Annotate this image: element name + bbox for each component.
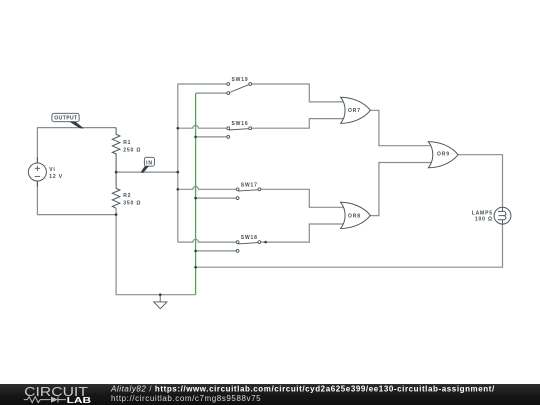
switch SW18 (236, 241, 261, 253)
svg-text:250 Ω: 250 Ω (123, 147, 141, 153)
net flag IN (141, 157, 155, 173)
wire SW19 pole to OR7 input A (252, 84, 347, 102)
resistor R2 (112, 172, 120, 208)
svg-text:IN: IN (146, 160, 153, 166)
label LAMP5 value (472, 210, 493, 222)
svg-text:R2: R2 (123, 193, 131, 199)
lamp LAMP5 (494, 207, 511, 224)
wire bus vertical (177, 84, 179, 242)
wire V1 top to R1 top (37, 128, 116, 164)
wire V1 bottom to R2 bottom node (37, 181, 116, 215)
wire SW16 top throw with hop (178, 125, 227, 128)
switch SW19 (227, 83, 252, 95)
wire SW18 top throw with hop (178, 239, 237, 242)
wire SW16 pole to OR7 input B (252, 119, 347, 129)
svg-text:R1: R1 (123, 140, 131, 146)
svg-text:OR8: OR8 (348, 213, 361, 219)
wire SW18 pole to OR8 input B (261, 224, 346, 242)
resistor R1 (112, 128, 120, 173)
wire R2 bottom to ground rail (116, 208, 196, 294)
junction green at SW18 (194, 250, 197, 253)
wire node IN from divider to bus (116, 171, 178, 173)
junction green at SW16 (194, 136, 197, 139)
svg-text:SW16: SW16 (232, 121, 249, 127)
wire SW19 top throw (178, 83, 227, 85)
wire green highlighted net (195, 93, 197, 295)
CircuitLab logo waveform (24, 397, 66, 403)
svg-text:Vi: Vi (49, 167, 55, 173)
wire SW17 bottom throw from green net (196, 197, 237, 199)
junction V1 minus to R2 (115, 213, 118, 216)
switch SW17 (236, 188, 261, 200)
switch SW16 (227, 127, 252, 139)
or-gate OR9 (428, 142, 458, 168)
svg-text:http://circuitlab.com/c7mg8s95: http://circuitlab.com/c7mg8s9588v75 (111, 394, 261, 403)
junction ground (159, 293, 162, 296)
label R1 value (123, 140, 141, 153)
label Vi value (49, 167, 63, 180)
junction bus at SW16 (177, 127, 180, 130)
wire SW19 bottom throw from green net (196, 92, 227, 94)
junction green at lamp return (194, 266, 197, 269)
junction green at SW17 (194, 197, 197, 200)
svg-text:Alitaly82 / https://www.circui: Alitaly82 / https://www.circuitlab.com/c… (110, 385, 495, 394)
svg-text:OR7: OR7 (348, 108, 361, 114)
svg-text:OR9: OR9 (437, 152, 450, 158)
junction bus at IN wire (177, 171, 180, 174)
wire OR8 output to OR9 input B (370, 163, 432, 216)
wire SW17 top throw with hop (178, 187, 237, 190)
junction SW18 pole (264, 241, 267, 244)
svg-text:LAB: LAB (67, 395, 91, 405)
wire lamp bottom return to green net (196, 224, 503, 267)
net flag OUTPUT (52, 113, 84, 128)
svg-text:SW18: SW18 (241, 235, 258, 241)
wire SW16 bottom throw from green net (196, 136, 227, 138)
wire SW18 bottom throw from green net (196, 250, 237, 252)
or-gate OR8 (341, 202, 371, 228)
wire SW17 pole to OR8 input A (261, 189, 346, 207)
wire OR9 output to lamp (458, 155, 502, 208)
junction node divider IN (115, 171, 118, 174)
ground (154, 295, 167, 309)
voltage source Vi (28, 157, 46, 187)
svg-text:350 Ω: 350 Ω (123, 201, 141, 207)
junction bus at SW17 (177, 188, 180, 191)
svg-text:SW17: SW17 (241, 182, 258, 188)
svg-text:OUTPUT: OUTPUT (54, 116, 77, 122)
svg-text:100 Ω: 100 Ω (475, 217, 493, 223)
or-gate OR7 (341, 97, 371, 123)
wire OR7 output to OR9 input A (370, 110, 432, 145)
svg-text:12 V: 12 V (49, 174, 63, 180)
svg-text:LAMP5: LAMP5 (472, 210, 493, 216)
label R2 value (123, 193, 141, 206)
svg-text:SW19: SW19 (232, 77, 249, 83)
